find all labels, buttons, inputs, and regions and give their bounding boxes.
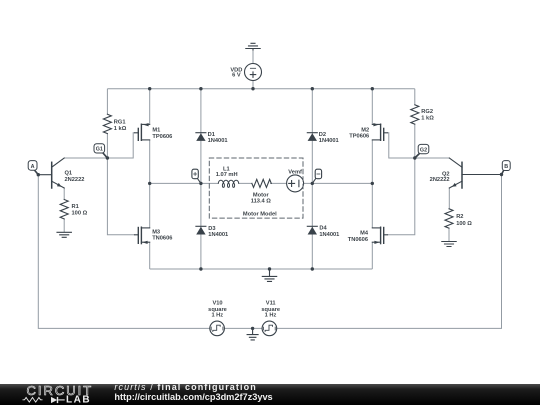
wire M1 gate to G1 node bbox=[107, 133, 134, 158]
diode D1 1N4001 bbox=[196, 133, 206, 141]
ground (bottom sources) bbox=[247, 328, 258, 340]
svg-text:Vemf: Vemf bbox=[288, 170, 302, 176]
svg-text:6 V: 6 V bbox=[232, 73, 241, 79]
voltage source V10 square 1Hz bbox=[210, 321, 225, 336]
svg-text:1N4001: 1N4001 bbox=[319, 138, 339, 144]
svg-text:Q1: Q1 bbox=[65, 170, 73, 176]
wire top rail bbox=[107, 88, 414, 90]
voltage source Vemf bbox=[287, 175, 304, 192]
mosfet M3 TN0606 bbox=[135, 227, 150, 244]
wire Q1 collector to G1 node bbox=[64, 157, 107, 159]
svg-text:R2: R2 bbox=[456, 214, 463, 220]
svg-text:1 Hz: 1 Hz bbox=[265, 313, 277, 319]
svg-text:D2: D2 bbox=[319, 132, 326, 138]
svg-text:http://circuitlab.com/cp3dm2f7: http://circuitlab.com/cp3dm2f7z3yvs bbox=[114, 392, 272, 402]
svg-text:M1: M1 bbox=[152, 127, 160, 133]
svg-text:2N2222: 2N2222 bbox=[65, 177, 85, 183]
wire node B to V11 bbox=[276, 175, 501, 329]
wire Q1 emitter to R1 bbox=[63, 188, 65, 200]
voltage source V11 square 1Hz bbox=[262, 321, 277, 336]
svg-text:100 Ω: 100 Ω bbox=[456, 221, 472, 227]
wire R1 to ground bbox=[63, 219, 65, 232]
diode D2 1N4001 bbox=[307, 133, 317, 141]
wire M4 drain to motor rail bbox=[371, 183, 373, 228]
wire D1 branch bbox=[200, 89, 202, 184]
svg-text:2N2222: 2N2222 bbox=[430, 177, 450, 183]
svg-text:Motor Model: Motor Model bbox=[243, 212, 277, 218]
wire Q2 emitter to R2 bbox=[448, 188, 450, 209]
wire Q2 collector to G2 node bbox=[415, 157, 450, 159]
wire G2 node to M4 gate bbox=[388, 158, 415, 235]
ground (bottom center) bbox=[262, 269, 276, 281]
svg-text:1 kΩ: 1 kΩ bbox=[421, 116, 434, 122]
svg-text:LAB: LAB bbox=[66, 395, 91, 405]
wire M3 source to bottom rail bbox=[149, 242, 151, 269]
svg-text:113.4 Ω: 113.4 Ω bbox=[251, 199, 271, 205]
ground (below R2) bbox=[442, 242, 456, 247]
wire motor rail bbox=[150, 182, 373, 184]
mosfet M2 TP0606 bbox=[372, 123, 387, 140]
resistor RG1 1k bbox=[103, 114, 111, 133]
wire RG1 branch bbox=[106, 89, 108, 158]
motor model dashed box bbox=[209, 158, 303, 218]
wire M3 drain to motor rail bbox=[149, 183, 151, 228]
resistor R1 100 bbox=[60, 200, 68, 219]
wire R2 to ground bbox=[448, 228, 450, 241]
svg-text:R1: R1 bbox=[72, 204, 79, 210]
wire D2 branch bbox=[311, 89, 313, 184]
svg-text:TN0606: TN0606 bbox=[348, 237, 368, 243]
svg-text:rcurtis / final configuration: rcurtis / final configuration bbox=[114, 382, 256, 392]
svg-text:100 Ω: 100 Ω bbox=[72, 211, 88, 217]
svg-text:Motor: Motor bbox=[253, 192, 270, 198]
svg-text:1N4001: 1N4001 bbox=[208, 232, 228, 238]
wire M1 source to rail bbox=[149, 89, 151, 125]
logo CIRCUIT bbox=[27, 383, 94, 398]
svg-text:RG1: RG1 bbox=[114, 119, 126, 125]
wire node A to V10 bbox=[38, 175, 210, 329]
ground (top, above VDD) bbox=[246, 43, 260, 50]
wire M2 source to rail bbox=[371, 89, 373, 125]
logo diode bbox=[51, 397, 65, 403]
resistor RG2 1k bbox=[411, 105, 419, 124]
svg-text:D4: D4 bbox=[319, 226, 327, 232]
svg-text:D3: D3 bbox=[208, 226, 215, 232]
diode D3 1N4001 bbox=[196, 226, 206, 234]
resistor R2 100 bbox=[445, 209, 453, 228]
node flag minus bbox=[312, 169, 321, 183]
svg-text:G1: G1 bbox=[96, 147, 103, 153]
wire M1 drain to motor rail bbox=[149, 140, 151, 184]
transistor Q1 2N2222 bbox=[38, 158, 64, 188]
wire VDD to rail bbox=[252, 49, 254, 89]
svg-text:TP0606: TP0606 bbox=[152, 134, 172, 140]
mosfet M4 TN0606 bbox=[372, 227, 387, 244]
wire V10 to V11 bbox=[224, 327, 262, 329]
svg-text:V11: V11 bbox=[266, 300, 276, 306]
svg-text:B: B bbox=[504, 164, 508, 170]
diode D4 1N4001 bbox=[307, 226, 317, 234]
svg-text:RG2: RG2 bbox=[421, 109, 433, 115]
svg-text:G2: G2 bbox=[420, 147, 427, 153]
wire D4 branch bbox=[311, 183, 313, 269]
voltage source VDD 6V bbox=[245, 64, 262, 81]
svg-text:1 kΩ: 1 kΩ bbox=[114, 126, 127, 132]
wire M2 gate to G2 node bbox=[388, 133, 415, 158]
svg-text:D1: D1 bbox=[208, 132, 215, 138]
wire D3 branch bbox=[200, 183, 202, 269]
logo resistor squiggle bbox=[23, 398, 43, 403]
node flag A bbox=[28, 161, 38, 175]
wire RG2 branch bbox=[414, 89, 416, 158]
node flag G1 bbox=[94, 144, 107, 158]
node flag plus bbox=[192, 169, 201, 183]
footer bar bbox=[0, 384, 540, 405]
wire G1 node to M3 gate bbox=[107, 158, 134, 235]
inductor L1 1.07mH bbox=[218, 180, 238, 187]
svg-text:TP0606: TP0606 bbox=[349, 133, 369, 139]
wire bottom rail bbox=[150, 268, 373, 270]
node flag G2 bbox=[415, 144, 429, 158]
svg-text:1N4001: 1N4001 bbox=[319, 232, 339, 238]
wire M4 source to bottom rail bbox=[371, 242, 373, 269]
svg-text:M3: M3 bbox=[152, 230, 160, 236]
svg-text:1 Hz: 1 Hz bbox=[211, 313, 223, 319]
wire M2 drain to motor rail bbox=[371, 140, 373, 184]
node flag B bbox=[502, 161, 511, 175]
mosfet M1 TP0606 bbox=[135, 123, 150, 140]
svg-text:V10: V10 bbox=[212, 300, 222, 306]
svg-text:1N4001: 1N4001 bbox=[208, 138, 228, 144]
resistor Motor 113.4 bbox=[252, 179, 271, 187]
svg-text:M4: M4 bbox=[360, 231, 369, 237]
transistor Q2 2N2222 bbox=[449, 158, 501, 188]
svg-text:A: A bbox=[31, 164, 35, 170]
svg-text:TN0606: TN0606 bbox=[152, 236, 172, 242]
svg-text:1.07 mH: 1.07 mH bbox=[216, 172, 238, 178]
ground (below R1) bbox=[57, 232, 71, 237]
